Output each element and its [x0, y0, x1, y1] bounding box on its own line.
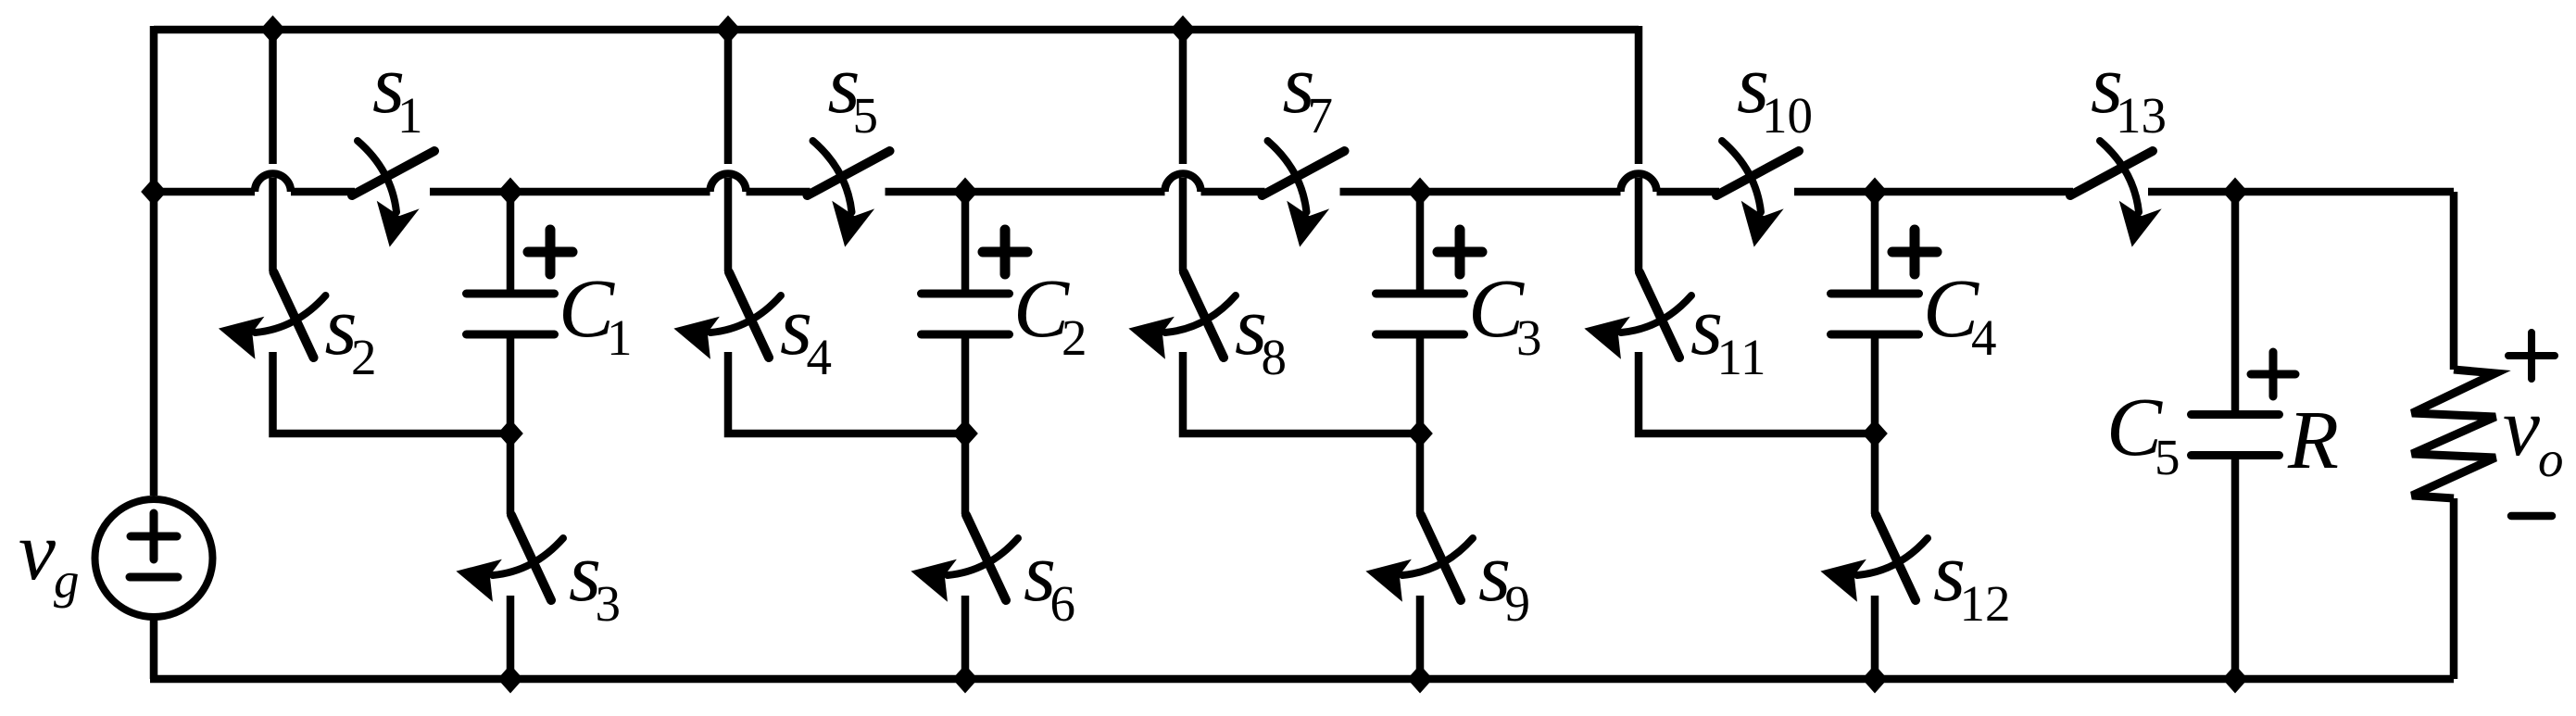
wire mid rail seg6	[1201, 188, 1265, 196]
node C5 top	[2224, 179, 2247, 205]
wire hop over stage2 branch	[710, 174, 747, 192]
wire mid rail seg3	[430, 188, 710, 196]
svg-text:o: o	[2538, 431, 2564, 487]
output plus	[2508, 333, 2555, 379]
svg-text:4: 4	[1971, 309, 1997, 366]
wire mid rail seg8	[1657, 188, 1720, 196]
C5 polarity plus	[2251, 352, 2295, 396]
wire hop over stage3 branch	[1165, 174, 1201, 192]
svg-text:1: 1	[607, 309, 633, 366]
svg-text:5: 5	[2155, 429, 2180, 485]
wire S3 to bottom rail	[507, 596, 515, 679]
wire hop over stage1 branch	[255, 174, 291, 192]
C1 polarity plus	[528, 230, 572, 274]
node bottom rail stage2	[954, 666, 977, 692]
node C3 top	[1409, 179, 1432, 205]
switch S13	[2070, 151, 2153, 195]
wire stage2 branch upper	[724, 30, 733, 164]
svg-text:12: 12	[1960, 575, 2011, 632]
switch S12	[1871, 433, 1879, 514]
svg-text:R: R	[2287, 395, 2339, 486]
C3 polarity plus	[1438, 230, 1482, 274]
switch S3	[507, 433, 515, 514]
svg-text:3: 3	[596, 575, 622, 632]
switch S1	[352, 151, 434, 195]
switch S11	[1640, 272, 1679, 358]
svg-text:2: 2	[351, 329, 377, 385]
capacitor C4	[1871, 192, 1879, 294]
wire stage4 branch upper	[1635, 178, 1643, 271]
svg-text:6: 6	[1050, 575, 1076, 632]
node bottom rail stage3	[1409, 666, 1432, 692]
wire vg bottom lead	[150, 617, 158, 679]
capacitor C2	[961, 192, 970, 294]
node top rail / stage2	[717, 17, 740, 43]
svg-text:v: v	[2503, 382, 2540, 473]
wire left vertical (vg top lead)	[150, 26, 158, 496]
node bottom rail stage1	[499, 666, 522, 692]
svg-text:7: 7	[1308, 87, 1334, 144]
switch S8	[1184, 272, 1224, 358]
wire S6 to bottom rail	[961, 596, 970, 679]
wire mid rail seg4	[747, 188, 810, 196]
switch S6	[961, 433, 970, 514]
node C1 bottom	[499, 421, 522, 446]
wire S9 to bottom rail	[1416, 596, 1425, 679]
capacitor C5	[2231, 192, 2240, 415]
switch S4	[729, 272, 769, 358]
output minus	[2511, 512, 2552, 521]
wire mid rail seg7	[1340, 188, 1621, 196]
capacitor C1	[507, 192, 515, 294]
svg-text:3: 3	[1516, 309, 1542, 366]
svg-text:13: 13	[2116, 87, 2167, 144]
wire mid rail seg5	[886, 188, 1165, 196]
wire hop over stage4 branch	[1621, 174, 1657, 192]
svg-text:v: v	[19, 506, 56, 597]
wire stage3 branch upper	[1179, 30, 1187, 164]
node top rail / stage1	[261, 17, 284, 43]
node C4 bottom	[1864, 421, 1887, 446]
mid rail: node vg	[143, 179, 166, 205]
wire mid rail seg9	[1794, 188, 2073, 196]
wire S2 lower lead to node	[273, 352, 511, 433]
C4 polarity plus	[1892, 230, 1937, 274]
C2 polarity plus	[983, 230, 1027, 274]
wire S12 to bottom rail	[1871, 596, 1879, 679]
switch S7	[1263, 151, 1345, 195]
switch S9	[1416, 433, 1425, 514]
node C5 bottom	[2224, 666, 2247, 692]
node C2 top	[954, 179, 977, 205]
wire mid rail seg1	[150, 188, 255, 196]
node C2 bottom	[954, 421, 977, 446]
voltage source vg	[95, 499, 213, 617]
svg-text:9: 9	[1505, 575, 1531, 632]
wire stage1 branch upper	[269, 30, 277, 164]
svg-text:8: 8	[1262, 329, 1288, 385]
node C1 top	[499, 179, 522, 205]
svg-text:4: 4	[807, 329, 833, 385]
capacitor C3	[1416, 192, 1425, 294]
wire S4 lower lead to node	[728, 352, 965, 433]
svg-text:11: 11	[1717, 329, 1766, 385]
node C3 bottom	[1409, 421, 1432, 446]
switch S2	[274, 272, 314, 358]
svg-text:g: g	[54, 552, 80, 609]
wire S11 lower lead to node	[1639, 352, 1875, 433]
svg-text:5: 5	[853, 87, 879, 144]
wire mid rail seg10	[2148, 188, 2454, 196]
bottom rail	[150, 675, 2454, 684]
wire S8 lower lead to node	[1183, 352, 1420, 433]
wire mid rail seg2	[291, 188, 355, 196]
svg-text:10: 10	[1762, 87, 1813, 144]
node bottom rail stage4	[1864, 666, 1887, 692]
switch S5	[808, 151, 890, 195]
node C4 top	[1864, 179, 1887, 205]
resistor R	[2450, 192, 2458, 370]
switch S10	[1716, 151, 1799, 195]
top rail	[154, 26, 1639, 34]
svg-text:1: 1	[397, 87, 423, 144]
node top rail / stage3	[1172, 17, 1195, 43]
wire top rail right corner down	[1635, 26, 1643, 164]
svg-text:2: 2	[1062, 309, 1087, 366]
